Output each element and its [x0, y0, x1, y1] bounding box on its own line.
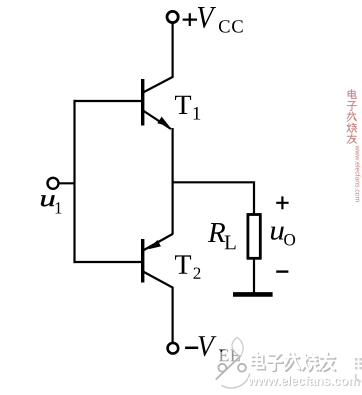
transistor T1 emitter with arrow — [143, 111, 171, 130]
label VEE — [198, 336, 240, 361]
transistor T1 base bar — [141, 79, 144, 126]
terminal -VEE circle — [168, 343, 179, 354]
left rail wire — [73, 100, 75, 263]
transistor T2 emitter with arrow (points into base) — [143, 234, 173, 251]
wire middle vertical (emitters junction) — [172, 128, 174, 235]
watermark logo (bottom right) — [213, 338, 251, 389]
watermark text www.elecfans.com (embossed) — [248, 376, 360, 386]
watermark curve fragment (right edge) — [356, 374, 361, 382]
transistor T2 base bar — [141, 239, 144, 283]
label plus sign of +VCC — [183, 13, 197, 26]
wire RL to ground — [253, 259, 255, 293]
wire T1 base — [74, 100, 141, 102]
label + (output polarity) — [276, 196, 288, 209]
label minus sign of -VEE — [185, 347, 198, 350]
resistor RL box — [248, 215, 260, 259]
label RL — [208, 223, 236, 249]
transistor T2 collector — [143, 272, 173, 344]
label T1 — [175, 96, 200, 120]
wire VCC to T1 collector — [143, 22, 173, 92]
wire output node to RL — [173, 182, 254, 214]
watermark dots fragment (right edge) — [355, 358, 362, 369]
input terminal circle — [48, 178, 59, 189]
wire input to rail — [59, 182, 75, 184]
watermark vertical red hanzi (right edge) — [347, 90, 357, 144]
label u1 — [41, 195, 62, 213]
watermark vertical red url (right edge) — [355, 146, 360, 202]
label VCC — [198, 7, 243, 33]
wire T2 base — [74, 261, 141, 263]
label minus (output polarity) — [276, 270, 288, 272]
label T2 — [175, 255, 200, 278]
label uO — [271, 227, 295, 246]
terminal +VCC circle — [167, 11, 178, 22]
watermark text dian-zi-fa-shao-you (embossed) — [251, 352, 335, 371]
ground bar — [233, 292, 273, 297]
